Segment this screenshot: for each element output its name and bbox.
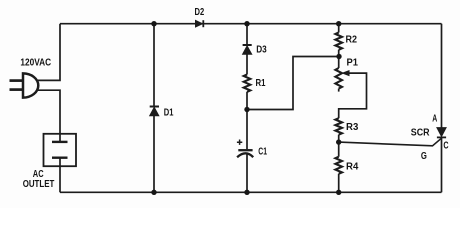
wire: R4 bottom lead to bottom rail — [338, 174, 340, 193]
SCR — [437, 128, 446, 138]
AC plug (120VAC) — [10, 73, 39, 97]
resistor R4 — [335, 157, 342, 174]
svg-text:R3: R3 — [346, 122, 359, 133]
svg-text:G: G — [421, 151, 427, 162]
wire: D1 branch upper lead — [153, 24, 155, 107]
node: R2 / P1 junction — [336, 54, 341, 59]
wire: top rail — [60, 23, 442, 25]
svg-text:D2: D2 — [195, 7, 205, 18]
node: R3 / R4 / gate junction — [336, 139, 341, 144]
wire: SCR cathode to bottom rail — [441, 137, 443, 192]
diode D1 — [150, 107, 159, 116]
wire: plug bottom lead down to AC outlet top contact — [36, 90, 60, 142]
wire: C1 to bottom rail — [246, 155, 248, 193]
wire: plug top lead and riser to top rail — [37, 24, 61, 81]
potentiometer P1 — [335, 57, 349, 92]
AC outlet SO1 — [44, 134, 77, 166]
wire: R3 bottom lead to gate junction — [338, 135, 340, 142]
svg-text:C1: C1 — [258, 147, 267, 158]
node: top rail / R2 junction — [336, 21, 341, 26]
svg-text:SCR: SCR — [411, 128, 430, 139]
svg-text:P1: P1 — [347, 57, 359, 68]
wire: AC outlet bottom contact to bottom rail — [59, 158, 61, 193]
node: top rail / D1 junction — [151, 21, 156, 26]
wire: R1 to C1 lead — [246, 92, 248, 149]
node: R1 bottom junction — [244, 107, 249, 112]
svg-text:R2: R2 — [346, 35, 358, 46]
node: bottom rail / R4 junction — [336, 190, 341, 195]
capacitor C1 — [237, 140, 253, 158]
resistor R2 — [335, 33, 342, 50]
wire: gate junction to R4 top lead — [338, 142, 340, 157]
label: C1 polarity + — [237, 140, 242, 145]
wire: R2 bottom lead to junction — [338, 50, 340, 57]
svg-text:A: A — [432, 114, 437, 125]
svg-text:D3: D3 — [256, 44, 267, 55]
wire: D3 to R1 lead — [246, 54, 248, 74]
diode D2 (in top rail) — [196, 20, 204, 27]
resistor R3 — [335, 118, 342, 135]
node: bottom rail / C1 junction — [244, 190, 249, 195]
svg-text:OUTLET: OUTLET — [23, 179, 55, 190]
wire: D1 branch lower lead — [153, 116, 155, 193]
wire: gate wire from R3/R4 junction to SCR gate — [339, 138, 442, 146]
node: bottom rail / D1 junction — [151, 190, 156, 195]
wire: right edge / SCR anode lead — [441, 24, 443, 128]
svg-text:R4: R4 — [346, 162, 359, 173]
svg-text:C: C — [443, 141, 448, 152]
resistor R1 — [244, 75, 251, 92]
svg-text:D1: D1 — [164, 107, 174, 118]
diode D3 — [243, 45, 252, 54]
wire: R1 bottom junction over to R2/P1 junction — [247, 57, 339, 110]
wire: D3 branch upper lead — [246, 24, 248, 45]
svg-text:R1: R1 — [256, 78, 266, 89]
wire: bottom rail — [60, 191, 442, 193]
wire: P1 wiper loop down to R3 top — [339, 73, 367, 118]
svg-text:120VAC: 120VAC — [20, 57, 51, 68]
wire: R2 top lead — [338, 24, 340, 33]
node: top rail / D3 junction — [244, 21, 249, 26]
